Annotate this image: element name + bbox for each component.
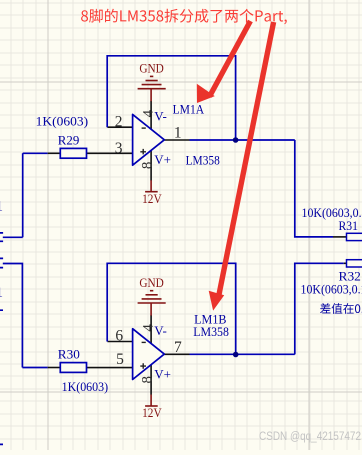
svg-text:A1: A1 bbox=[0, 285, 3, 301]
svg-text:8: 8 bbox=[139, 162, 155, 170]
svg-text:LM1A: LM1A bbox=[173, 102, 205, 117]
svg-text:LM358: LM358 bbox=[193, 324, 229, 339]
svg-text:1K(0603): 1K(0603) bbox=[62, 379, 109, 394]
svg-text:8: 8 bbox=[139, 376, 155, 384]
svg-text:R31: R31 bbox=[339, 218, 359, 233]
svg-text:1K(0603): 1K(0603) bbox=[36, 114, 89, 129]
svg-text:12V: 12V bbox=[142, 191, 162, 206]
svg-text:GND: GND bbox=[139, 61, 164, 76]
svg-text:CSDN @qq_42157472: CSDN @qq_42157472 bbox=[259, 431, 361, 443]
svg-text:V+: V+ bbox=[154, 152, 171, 167]
svg-text:R30: R30 bbox=[58, 346, 80, 361]
svg-text:1: 1 bbox=[174, 125, 182, 142]
svg-text:12V: 12V bbox=[142, 405, 162, 420]
svg-text:10K(0603,0.1: 10K(0603,0.1 bbox=[301, 281, 362, 296]
svg-text:3: 3 bbox=[115, 140, 123, 157]
svg-text:5: 5 bbox=[116, 351, 124, 368]
svg-text:V+: V+ bbox=[154, 367, 171, 382]
svg-text:V-: V- bbox=[154, 323, 167, 338]
svg-text:V-: V- bbox=[154, 109, 167, 124]
svg-text:A1: A1 bbox=[0, 198, 3, 214]
svg-text:2: 2 bbox=[115, 114, 123, 131]
svg-text:R29: R29 bbox=[58, 133, 80, 148]
svg-text:6: 6 bbox=[115, 328, 123, 345]
svg-text:7: 7 bbox=[174, 339, 182, 356]
svg-text:LM358: LM358 bbox=[186, 153, 220, 168]
svg-text:GND: GND bbox=[139, 275, 164, 290]
